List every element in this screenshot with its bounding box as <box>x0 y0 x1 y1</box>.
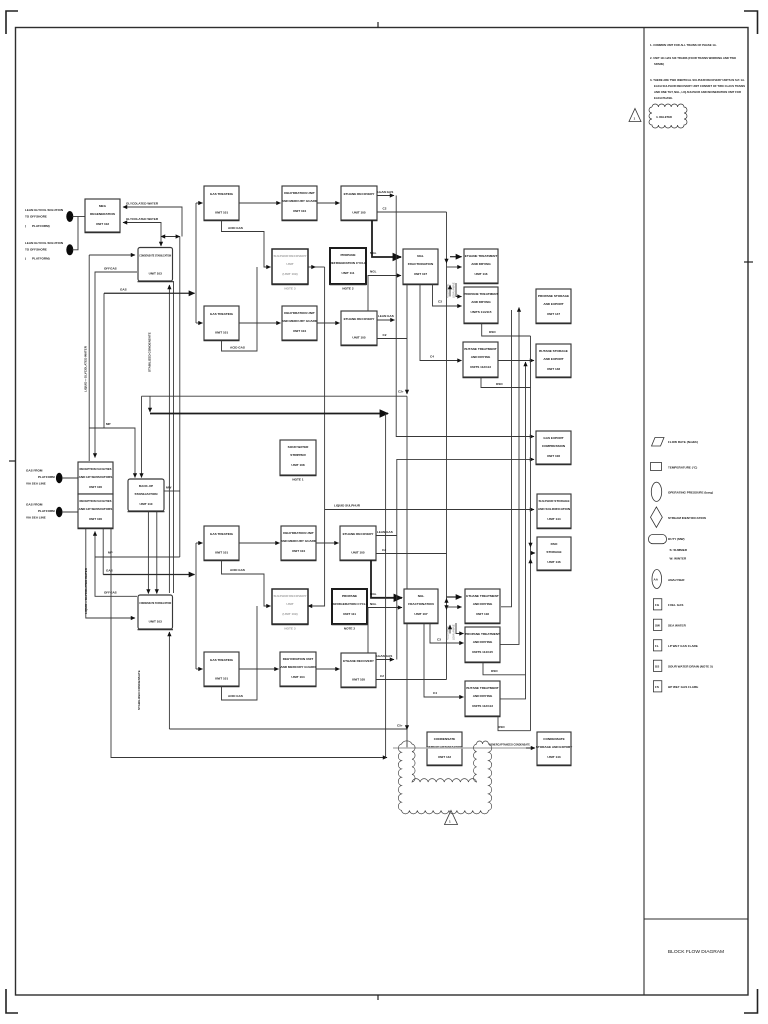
svg-text:AND EXPORT: AND EXPORT <box>543 357 563 361</box>
svg-text:GAS TREATING: GAS TREATING <box>210 532 234 536</box>
svg-text:NGL/AMINE: NGL/AMINE <box>446 283 450 298</box>
wire glycol connectors to MEG unit <box>72 216 85 218</box>
svg-text:MW: MW <box>166 486 172 490</box>
unit 106 gas export compression <box>536 431 572 465</box>
svg-text:ACID GAS: ACID GAS <box>228 226 243 230</box>
svg-text:DEHYDRATION UNIT: DEHYDRATION UNIT <box>284 191 315 195</box>
wire NGL from ethane recovery A <box>372 220 401 257</box>
svg-text:UNIT 148: UNIT 148 <box>547 367 561 371</box>
legend box DS <box>653 660 712 671</box>
svg-text:AND MERCURY GUARD: AND MERCURY GUARD <box>281 539 317 543</box>
svg-text:FG: FG <box>655 603 660 607</box>
svg-text:AND DRYING: AND DRYING <box>471 262 491 266</box>
wire dehydration A to ethane recovery A <box>317 202 340 204</box>
wire offgas bottom to reception 2 <box>95 532 137 597</box>
svg-text:ETHANE RECOVERY: ETHANE RECOVERY <box>343 659 375 663</box>
unit 101 gas treating A <box>204 186 240 221</box>
svg-text:UNIT 105: UNIT 105 <box>352 336 366 340</box>
svg-text:HP WET GAS FLARE: HP WET GAS FLARE <box>668 685 698 689</box>
svg-text:REFRIGERATION CYCLE: REFRIGERATION CYCLE <box>331 602 368 606</box>
svg-text:AND EXPORT: AND EXPORT <box>543 302 563 306</box>
corner bracket top-right <box>744 11 758 34</box>
svg-text:NOTE 2: NOTE 2 <box>344 627 355 631</box>
svg-text:STABILIZED CONDENSATE: STABILIZED CONDENSATE <box>148 332 152 372</box>
wire MP bottom header <box>95 556 180 558</box>
svg-text:C3: C3 <box>437 638 441 642</box>
wire lean gas A <box>377 195 394 197</box>
svg-text:C4: C4 <box>433 691 437 695</box>
svg-text:AND DRYING: AND DRYING <box>473 640 493 644</box>
svg-text:MP: MP <box>108 551 113 555</box>
unit 104 dehydration C <box>281 526 317 561</box>
svg-text:UNIT 144: UNIT 144 <box>547 517 561 521</box>
right column separator <box>643 28 645 996</box>
svg-text:1- COMMON UNIT FOR ALL TRAINS: 1- COMMON UNIT FOR ALL TRAINS OF PHASE 1… <box>650 43 717 47</box>
svg-text:UNIT 104: UNIT 104 <box>291 675 305 679</box>
wire amine return up bottom <box>449 625 451 634</box>
svg-text:UNIT 102: UNIT 102 <box>96 222 110 226</box>
svg-text:BUTANE TREATMENT: BUTANE TREATMENT <box>464 347 496 351</box>
svg-text:CONDENSATE STABILIZATION: CONDENSATE STABILIZATION <box>139 601 172 605</box>
svg-text:VIA SEA LINE: VIA SEA LINE <box>26 482 46 486</box>
revision triangle 1 (bottom) <box>445 811 458 825</box>
svg-text:STORAGE: STORAGE <box>546 550 561 554</box>
svg-text:AND ONE TGT, NGL, LIQ.SULPHUR: AND ONE TGT, NGL, LIQ.SULPHUR AND INCINE… <box>654 90 741 94</box>
svg-text:UNIT 100: UNIT 100 <box>89 517 103 521</box>
svg-text:LEAN GAS: LEAN GAS <box>377 530 393 534</box>
wire lean gas riser lower to gas export line2 <box>397 459 534 659</box>
edge tick right <box>744 261 753 263</box>
unit 107 NGL fractionation (top) <box>403 249 439 285</box>
unit 101 gas treating C <box>204 526 240 561</box>
wire into condensate stab top <box>160 237 162 247</box>
unit 100 reception facilities A <box>78 462 114 495</box>
svg-text:SEA WATER: SEA WATER <box>668 624 687 628</box>
wire acid gas D <box>222 606 258 700</box>
svg-text:LEAN GLYCOL SOLUTION: LEAN GLYCOL SOLUTION <box>25 208 63 212</box>
svg-text:FLOW RATE (Nm3/h): FLOW RATE (Nm3/h) <box>668 440 698 444</box>
svg-text:GAS FROM: GAS FROM <box>26 503 43 507</box>
wire amine return up A <box>449 285 451 297</box>
svg-text:LP WET GAS FLARE: LP WET GAS FLARE <box>668 644 698 648</box>
wire arrow into condensate storage <box>526 747 535 749</box>
svg-text:NGL: NGL <box>418 594 425 598</box>
svg-text:ACID GAS: ACID GAS <box>228 694 243 698</box>
svg-text:LEAN AMINE: LEAN AMINE <box>452 282 456 298</box>
units 114/115 propane treatment (top) <box>464 287 499 324</box>
wire DSO from butane treatment A <box>481 377 531 388</box>
wire MW to backup stab <box>164 490 180 492</box>
unit 103 condensate stabilization (bottom) <box>138 595 174 630</box>
unit 100 reception facilities B <box>78 494 114 529</box>
svg-text:CONDENSATE: CONDENSATE <box>434 737 455 741</box>
wire backup to bottom stab 2 <box>156 511 158 594</box>
svg-text:DUTY (MW): DUTY (MW) <box>668 537 685 541</box>
svg-text:LIQUID + GLYCOLATED WATER: LIQUID + GLYCOLATED WATER <box>84 345 88 392</box>
svg-text:STREAM IDENTIFICATION: STREAM IDENTIFICATION <box>668 516 706 520</box>
svg-text:AND HP SEPARATORS: AND HP SEPARATORS <box>79 475 113 479</box>
legend box FL <box>653 640 698 651</box>
svg-text:NGL/AMINE: NGL/AMINE <box>446 625 450 640</box>
svg-text:UNIT: UNIT <box>286 262 293 266</box>
svg-text:DSO: DSO <box>489 330 496 334</box>
legend box SW <box>653 619 686 630</box>
wire NGL from ethane recovery D <box>368 608 402 654</box>
wire condensate through line upper <box>168 285 170 593</box>
wire gas header top <box>104 292 195 294</box>
wire feed condensate stab top-left <box>89 254 135 256</box>
unit 101 gas treating B <box>204 306 240 341</box>
inlet lean glycol solution 1 <box>25 208 73 228</box>
edge tick bottom <box>377 995 379 1000</box>
svg-text:UNIT 107: UNIT 107 <box>414 272 428 276</box>
svg-text:UNIT 105: UNIT 105 <box>351 551 365 555</box>
svg-text:UNIT 105: UNIT 105 <box>352 211 366 215</box>
svg-text:UNIT 100: UNIT 100 <box>89 485 103 489</box>
svg-text:AND MERCURY GUARD: AND MERCURY GUARD <box>282 319 318 323</box>
inlet lean glycol solution 2 <box>25 241 73 261</box>
wire gas treating D to dehydration D <box>239 668 279 670</box>
wire backup to bottom stab 1 <box>147 511 149 594</box>
unit 105 ethane recovery D <box>341 653 377 688</box>
svg-text:UNIT 116: UNIT 116 <box>474 272 487 276</box>
svg-text:DEHYDRATION UNIT: DEHYDRATION UNIT <box>283 531 314 535</box>
svg-text:STABILIZED CONDENSATE: STABILIZED CONDENSATE <box>137 670 141 710</box>
svg-text:PROPANE TREATMENT: PROPANE TREATMENT <box>465 632 500 636</box>
svg-text:LIQUID SULPHUR: LIQUID SULPHUR <box>334 504 361 508</box>
wire C3 to propane treatment A <box>433 284 462 306</box>
svg-text:AND MERCURY GUARD: AND MERCURY GUARD <box>282 199 318 203</box>
edge tick top <box>377 22 379 28</box>
svg-text:NOTE 1: NOTE 1 <box>292 478 303 482</box>
legend temperature rectangle <box>651 463 698 471</box>
svg-text:UNIT 101: UNIT 101 <box>215 331 229 335</box>
inlet gas from platform 2 <box>26 503 63 520</box>
wire gas treating feed split bottom <box>195 543 197 669</box>
wire C5+ continuation to lower NGL unit <box>406 396 408 589</box>
wire into backup stab top 2 <box>141 396 143 477</box>
legend flow rate parallelogram <box>652 438 699 447</box>
wire acid gas B <box>222 267 258 351</box>
svg-text:UNIT 146: UNIT 146 <box>547 560 561 564</box>
svg-text:1: 1 <box>634 117 636 121</box>
corner bracket bottom-right <box>744 989 758 1013</box>
svg-text:AND MERCURY GUARD: AND MERCURY GUARD <box>280 665 316 669</box>
svg-text:GLYCOLATED WATER: GLYCOLATED WATER <box>126 202 159 206</box>
wire DSO from propane treatment A <box>482 323 531 336</box>
svg-text:NOTE 2: NOTE 2 <box>342 287 353 291</box>
svg-text:SULPHUR STORAGE: SULPHUR STORAGE <box>538 499 569 503</box>
wire condensate through line lower <box>168 632 170 729</box>
svg-text:UNIT 104: UNIT 104 <box>293 329 307 333</box>
svg-text:C2: C2 <box>383 207 387 211</box>
svg-text:LIQUID + GLYCOLATED WATER: LIQUID + GLYCOLATED WATER <box>84 567 88 614</box>
svg-text:4- DELETED: 4- DELETED <box>656 115 672 119</box>
svg-text:SOUR WATER: SOUR WATER <box>288 445 310 449</box>
svg-text:FL: FL <box>655 644 659 648</box>
svg-text:C2: C2 <box>383 333 387 337</box>
unit 110 back-up stabilization <box>128 479 165 512</box>
svg-text:SULPHUR RECOVERY: SULPHUR RECOVERY <box>273 254 307 258</box>
svg-text:UNIT 101: UNIT 101 <box>215 211 229 215</box>
title block divider <box>644 918 748 920</box>
svg-text:UNIT 111: UNIT 111 <box>342 271 355 275</box>
wire C5+ from NGL fract bottom <box>406 623 408 730</box>
svg-text:GAS TREATING: GAS TREATING <box>210 658 234 662</box>
unit 104 dehydration A <box>282 186 318 221</box>
note 4 deleted with revision cloud <box>649 104 687 128</box>
svg-text:UNITS 112/113: UNITS 112/113 <box>470 365 491 369</box>
svg-text:UNIT 101: UNIT 101 <box>215 677 229 681</box>
svg-text:( PLATFORM): ( PLATFORM) <box>25 257 50 261</box>
unit 116 ethane treatment (top) <box>464 249 499 284</box>
unit 108 sour water stripper <box>280 440 317 482</box>
svg-text:GAS EXPORT: GAS EXPORT <box>543 436 563 440</box>
unit 104 dehydration B <box>282 306 318 341</box>
svg-text:UNIT 142: UNIT 142 <box>438 755 452 759</box>
svg-text:C3: C3 <box>438 300 442 304</box>
wire C4 to butane treatment bottom <box>424 623 464 697</box>
svg-text:DEHYDRATION UNIT: DEHYDRATION UNIT <box>284 311 315 315</box>
svg-text:NGL: NGL <box>417 254 424 258</box>
svg-text:LEAN GAS: LEAN GAS <box>377 654 393 658</box>
wire liquid sulphur header <box>325 509 534 511</box>
revision cloud bottom <box>398 741 491 814</box>
svg-text:AND DRYING: AND DRYING <box>471 300 491 304</box>
svg-text:LEAN GLYCOL SOLUTION: LEAN GLYCOL SOLUTION <box>25 241 63 245</box>
svg-text:SW: SW <box>655 624 660 628</box>
svg-text:ETHANE RECOVERY: ETHANE RECOVERY <box>343 532 375 536</box>
unit 148 butane storage <box>536 344 572 378</box>
svg-text:CONDENSATE STABILIZATION: CONDENSATE STABILIZATION <box>139 254 172 258</box>
svg-text:STORAGE AND EXPORT: STORAGE AND EXPORT <box>536 745 572 749</box>
svg-text:REGENERATION: REGENERATION <box>90 212 115 216</box>
svg-text:RECEPTION FACILITIES: RECEPTION FACILITIES <box>80 499 112 503</box>
legend box FG <box>653 599 683 610</box>
svg-text:EACH SULPHUR RECOVERY UNIT CON: EACH SULPHUR RECOVERY UNIT CONSIST OF TW… <box>654 84 745 88</box>
svg-text:MP: MP <box>106 422 111 426</box>
wire gas treating C to dehydration C <box>239 542 280 544</box>
wire into ethane treatment bottom 2 <box>447 606 462 608</box>
svg-text:BACK-UP: BACK-UP <box>139 484 153 488</box>
svg-text:ANALYSER: ANALYSER <box>668 578 685 582</box>
units 114/115 propane treatment (bottom) <box>465 627 501 663</box>
svg-text:C5+: C5+ <box>397 724 403 728</box>
wire gas header bottom <box>103 574 194 576</box>
svg-text:ETHANE TREATMENT: ETHANE TREATMENT <box>466 594 499 598</box>
svg-text:UNITS 114/115: UNITS 114/115 <box>471 310 492 314</box>
svg-text:GLYCOLATED WATER: GLYCOLATED WATER <box>126 217 159 221</box>
svg-text:STABILIZATION: STABILIZATION <box>134 492 158 496</box>
wire C2 D <box>376 679 447 681</box>
wire DSO collector <box>530 336 532 731</box>
svg-text:LEAN GAS: LEAN GAS <box>378 314 394 318</box>
svg-text:UNIT 103: UNIT 103 <box>149 272 163 276</box>
svg-text:AND HP SEPARATORS: AND HP SEPARATORS <box>79 507 113 511</box>
svg-text:NOTE 3: NOTE 3 <box>284 287 295 291</box>
unit 101 gas treating D <box>204 652 240 687</box>
wire liquid+glycolated water to bottom stab <box>86 529 135 619</box>
svg-text:UNIT 111: UNIT 111 <box>343 612 356 616</box>
wire DSO from propane treatment bottom <box>483 662 526 675</box>
wire C2 collector main <box>446 212 448 680</box>
svg-text:LEAN GAS: LEAN GAS <box>378 190 394 194</box>
svg-text:PROPANE: PROPANE <box>340 253 355 257</box>
wire lean gas B <box>377 319 395 321</box>
wire lean gas riser upper to gas export line1 <box>396 196 534 437</box>
svg-text:AND DRYING: AND DRYING <box>471 355 491 359</box>
svg-text:COMPRESSION: COMPRESSION <box>542 444 566 448</box>
svg-text:BUTANE TREATMENT: BUTANE TREATMENT <box>466 686 498 690</box>
units 112/113 butane treatment (bottom) <box>465 681 501 717</box>
wire gas inlet 2 <box>62 511 78 513</box>
wire acid gas C <box>222 560 271 606</box>
wire DSO arrows at storage <box>530 542 532 547</box>
svg-text:REFRIGERATION CYCLE: REFRIGERATION CYCLE <box>330 261 367 265</box>
svg-text:MEG: MEG <box>99 204 107 208</box>
legend stream identification diamond <box>651 507 706 528</box>
svg-text:LEAN AMINE: LEAN AMINE <box>452 624 456 640</box>
svg-text:C4: C4 <box>430 355 434 359</box>
wire C3 to propane treatment bottom <box>430 623 464 643</box>
unit 102 MEG regeneration <box>85 199 121 233</box>
svg-text:DSO: DSO <box>496 382 503 386</box>
wire lean gas D <box>376 659 394 661</box>
legend box FS <box>653 681 698 692</box>
unit 105 ethane recovery A <box>341 186 378 221</box>
svg-text:DEHYDRATION UNIT: DEHYDRATION UNIT <box>283 657 314 661</box>
svg-text:UNIT 105: UNIT 105 <box>352 678 366 682</box>
svg-text:NGL: NGL <box>370 602 377 606</box>
svg-text:UNITS 114/115: UNITS 114/115 <box>472 650 493 654</box>
svg-text:ETHANE TREATMENT: ETHANE TREATMENT <box>465 254 498 258</box>
wire gas treating A to dehydration A <box>239 202 281 204</box>
corner bracket top-left <box>6 11 18 34</box>
svg-text:FS: FS <box>655 685 659 689</box>
svg-text:OFFGAS: OFFGAS <box>104 267 117 271</box>
legend operating pressure ellipse <box>651 482 713 501</box>
wire gas riser top <box>103 293 105 428</box>
svg-text:PROPANE: PROPANE <box>342 594 357 598</box>
wire NGL from ethane recovery B <box>368 276 401 312</box>
svg-text:UNIT 110: UNIT 110 <box>139 502 152 506</box>
svg-text:DSO: DSO <box>498 725 505 729</box>
units 112/113 butane treatment (top) <box>463 342 499 378</box>
wire C4 to butane treatment A <box>420 284 462 361</box>
wire MW riser <box>179 237 181 558</box>
svg-text:UNIT 103: UNIT 103 <box>149 620 163 624</box>
svg-text:W: WINTER: W: WINTER <box>670 557 687 561</box>
wire C2 B to collector <box>377 338 407 340</box>
svg-text:3- THERE ARE TWO IDENTICAL SUL: 3- THERE ARE TWO IDENTICAL SULPHUR RECOV… <box>650 78 745 82</box>
svg-text:NGL: NGL <box>370 251 377 255</box>
unit 107 NGL fractionation (bottom) <box>404 589 439 624</box>
svg-text:FUEL GAS: FUEL GAS <box>668 603 683 607</box>
svg-text:1: 1 <box>449 820 451 824</box>
svg-text:S: SUMMER: S: SUMMER <box>670 548 688 552</box>
wire long condensate bottom header <box>169 728 407 730</box>
svg-text:PROPANE STORAGE: PROPANE STORAGE <box>538 294 569 298</box>
wire glycolated water 2 <box>123 223 161 237</box>
svg-text:CONDENSATE: CONDENSATE <box>543 737 564 741</box>
svg-text:UNIT 106: UNIT 106 <box>547 454 561 458</box>
wire C2 A header <box>377 211 447 213</box>
svg-text:GAS: GAS <box>106 569 113 573</box>
svg-text:(UNIT 109): (UNIT 109) <box>282 612 297 616</box>
svg-text:DS: DS <box>655 665 659 669</box>
svg-text:SOUR WATER DRAIN (NOTE 5): SOUR WATER DRAIN (NOTE 5) <box>668 665 713 669</box>
svg-text:C2+: C2+ <box>398 390 404 394</box>
wire ethane riser <box>501 310 512 607</box>
svg-text:GAS: GAS <box>120 288 127 292</box>
wire DSO into storage <box>531 552 536 554</box>
wire gas treating B to dehydration B <box>239 322 281 324</box>
svg-text:PLATFORM: PLATFORM <box>38 509 55 513</box>
wire bold header drop <box>385 414 387 758</box>
svg-text:AND DRYING: AND DRYING <box>473 694 493 698</box>
svg-text:ETHANE RECOVERY: ETHANE RECOVERY <box>344 192 376 196</box>
wire dehydration B to ethane recovery B <box>317 322 340 324</box>
svg-text:NGL: NGL <box>370 592 377 596</box>
svg-text:( PLATFORM): ( PLATFORM) <box>25 224 50 228</box>
wire NGL from ethane recovery C <box>371 560 402 598</box>
wire butane riser with up arrow <box>500 362 526 699</box>
svg-text:UNIT 108: UNIT 108 <box>291 463 305 467</box>
svg-text:DEMERCAPTANIZED CONDENSATE: DEMERCAPTANIZED CONDENSATE <box>489 743 530 747</box>
svg-text:(UNIT 109): (UNIT 109) <box>282 272 297 276</box>
wire offgas top to reception 1 <box>95 272 137 458</box>
notes text <box>650 43 745 100</box>
svg-text:TO OFFSHORE: TO OFFSHORE <box>25 215 47 219</box>
wire C2 collector arrow top <box>446 258 448 263</box>
wire C2 C <box>376 553 447 555</box>
svg-text:AND DRYING: AND DRYING <box>473 602 493 606</box>
svg-text:DSO: DSO <box>491 669 498 673</box>
inlet gas from platform 1 <box>26 469 63 486</box>
svg-text:ACID GAS: ACID GAS <box>230 346 245 350</box>
svg-text:UNIT 107: UNIT 107 <box>414 612 428 616</box>
svg-text:ACID GAS: ACID GAS <box>230 568 245 572</box>
svg-text:C2: C2 <box>382 548 386 552</box>
unit 146 DSO storage <box>537 537 572 571</box>
svg-text:UNIT 118: UNIT 118 <box>476 612 489 616</box>
svg-text:STRIPPER: STRIPPER <box>290 453 306 457</box>
svg-text:GAS TREATING: GAS TREATING <box>210 192 234 196</box>
svg-text:PROPANE TREATMENT: PROPANE TREATMENT <box>464 292 499 296</box>
wire gas inlet 1 <box>62 477 78 479</box>
wire C2+ header <box>142 395 408 397</box>
svg-text:AND SOLIDIFICATION: AND SOLIDIFICATION <box>538 507 571 511</box>
wire acid gas A <box>222 220 271 267</box>
unit 147 propane storage <box>536 289 572 324</box>
unit 109 sulphur recovery (bottom) <box>272 589 309 631</box>
svg-text:EACH PHASE.: EACH PHASE. <box>654 96 673 100</box>
svg-text:GAS FROM: GAS FROM <box>26 469 43 473</box>
svg-text:SULPHUR RECOVERY: SULPHUR RECOVERY <box>273 594 307 598</box>
unit 111 propane refrigeration (bottom) <box>331 589 368 631</box>
wire SRU A to riser <box>308 266 316 268</box>
wire glycolated water to reception 1 <box>88 255 90 461</box>
svg-text:2- UNIT 111 HAS SIX TRAINS (FO: 2- UNIT 111 HAS SIX TRAINS (FOUR TRAINS … <box>650 56 737 60</box>
legend analyser circle AA <box>652 570 685 589</box>
unit 105 ethane recovery C <box>340 526 377 561</box>
wire stabilized condensate top <box>173 281 175 593</box>
svg-text:PLATFORM: PLATFORM <box>38 475 55 479</box>
svg-text:FRACTIONATION: FRACTIONATION <box>408 262 434 266</box>
svg-text:GAS TREATING: GAS TREATING <box>210 312 234 316</box>
unit 105 ethane recovery B <box>341 311 378 346</box>
svg-text:OFFGAS: OFFGAS <box>104 591 117 595</box>
